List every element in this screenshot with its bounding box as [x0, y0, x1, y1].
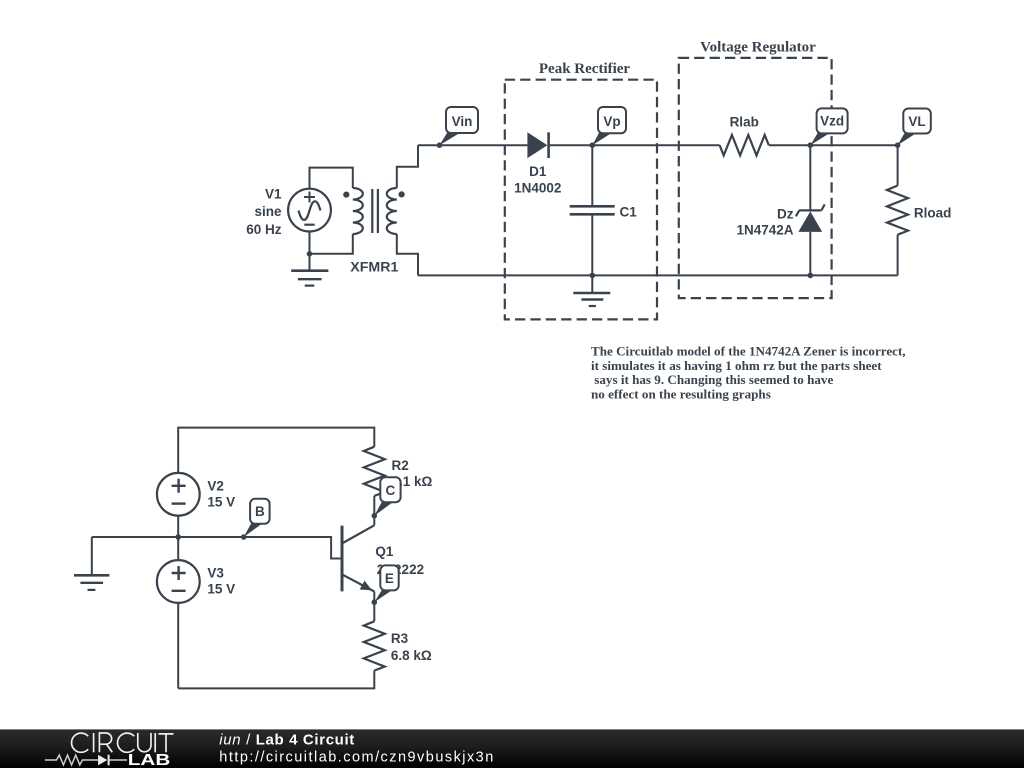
- wire V1 bottom: [309, 232, 311, 254]
- svg-text:C: C: [386, 483, 396, 498]
- svg-text:it simulates it as having 1 oh: it simulates it as having 1 ohm rz but t…: [591, 358, 882, 373]
- svg-text:LAB: LAB: [128, 752, 171, 768]
- svg-text:6.8 kΩ: 6.8 kΩ: [391, 648, 432, 663]
- wire top rail of bias circuit: [178, 428, 374, 473]
- junction node at C1 bottom: [590, 273, 596, 279]
- resistor Rload: [887, 145, 908, 275]
- transformer primary phase dot: [343, 192, 349, 198]
- svg-text:Vp: Vp: [603, 114, 620, 129]
- label V3 15 V: [207, 565, 235, 596]
- wire secondary top to Vin: [397, 145, 418, 188]
- dashed box Peak Rectifier: [505, 80, 657, 320]
- svg-text:Peak Rectifier: Peak Rectifier: [539, 61, 631, 77]
- wire R3 to bottom rail: [178, 671, 374, 689]
- node flag Vzd: [808, 108, 848, 148]
- label D1 1N4002: [514, 164, 561, 196]
- resistor R3: [364, 621, 385, 670]
- voltage source V2: [157, 473, 200, 516]
- wire primary bottom: [310, 234, 353, 254]
- svg-text:E: E: [385, 571, 394, 586]
- svg-text:15 V: 15 V: [207, 582, 235, 597]
- dashed box Voltage Regulator: [679, 58, 832, 298]
- wire V2 bottom: [177, 516, 179, 537]
- zener diode Dz: [796, 145, 825, 275]
- voltage source V3: [157, 560, 200, 603]
- svg-text:iun / Lab 4 Circuit: iun / Lab 4 Circuit: [219, 732, 354, 749]
- capacitor C1: [570, 145, 615, 275]
- svg-text:Vzd: Vzd: [820, 114, 844, 129]
- svg-text:R2: R2: [392, 458, 409, 473]
- node flag E: [374, 565, 398, 602]
- voltage source V1: [288, 189, 331, 232]
- logo CIRCUIT: [72, 733, 174, 752]
- svg-text:Vin: Vin: [452, 114, 473, 129]
- svg-text:B: B: [255, 504, 265, 519]
- svg-text:Voltage Regulator: Voltage Regulator: [700, 39, 816, 55]
- svg-text:Q1: Q1: [375, 544, 394, 559]
- svg-text:Rload: Rload: [914, 205, 952, 220]
- svg-text:Rlab: Rlab: [730, 115, 759, 130]
- svg-text:XFMR1: XFMR1: [350, 260, 398, 276]
- wire emitter to R3: [373, 592, 375, 622]
- transistor Q1: [342, 525, 374, 591]
- wire middle rail to base: [92, 537, 341, 559]
- footer bar: [0, 729, 1024, 768]
- node flag B: [241, 499, 270, 540]
- svg-text:says it has 9. Changing this s: says it has 9. Changing this seemed to h…: [591, 372, 833, 387]
- logo resistor-diode glyph: [45, 755, 127, 766]
- svg-text:C1: C1: [620, 204, 638, 219]
- svg-text:V3: V3: [207, 565, 224, 580]
- label V1 value: [246, 187, 282, 237]
- resistor Rlab: [720, 135, 769, 155]
- ground under C1: [573, 275, 610, 306]
- svg-text:60 Hz: 60 Hz: [246, 222, 282, 237]
- label Dz 1N4742A: [736, 206, 793, 237]
- junction node at emitter: [372, 599, 378, 605]
- svg-text:15 V: 15 V: [207, 495, 235, 510]
- wire R2 to collector: [373, 496, 375, 525]
- wire secondary bottom to lower bus: [397, 234, 418, 275]
- label V2 15 V: [207, 479, 235, 510]
- resistor R2: [364, 447, 385, 496]
- transformer secondary phase dot: [399, 191, 405, 197]
- wire top bus segment Vin to diode: [418, 144, 527, 146]
- wire V3 top: [177, 537, 179, 560]
- svg-text:D1: D1: [529, 164, 547, 179]
- wire top bus diode to Rlab: [549, 144, 720, 146]
- svg-text:V2: V2: [207, 479, 224, 494]
- transformer XFMR1 secondary coil: [387, 188, 397, 234]
- ground left: [74, 537, 109, 590]
- transformer core: [372, 189, 378, 233]
- node flag Vin: [437, 107, 478, 148]
- transformer XFMR1 primary coil: [353, 188, 363, 234]
- wire bottom bus: [418, 274, 898, 276]
- wire V1 top to transformer primary: [310, 168, 353, 189]
- diode D1: [527, 132, 548, 158]
- ground under V1: [291, 254, 328, 286]
- svg-text:R3: R3: [391, 631, 409, 646]
- wire top bus Rlab to VL: [769, 144, 898, 146]
- node flag C: [372, 477, 401, 518]
- note text: [591, 344, 906, 402]
- svg-text:no effect on the resulting gra: no effect on the resulting graphs: [591, 387, 771, 402]
- svg-text:VL: VL: [908, 114, 925, 129]
- svg-text:1N4742A: 1N4742A: [736, 223, 793, 238]
- junction node at Dz bottom: [808, 273, 814, 279]
- node flag Vp: [590, 107, 627, 148]
- svg-text:Dz: Dz: [777, 206, 794, 221]
- svg-text:sine: sine: [254, 204, 282, 219]
- junction node at V1 bottom: [307, 251, 313, 257]
- svg-text:V1: V1: [265, 187, 282, 202]
- wire V3 bottom: [177, 603, 179, 689]
- svg-text:The Circuitlab model of the 1N: The Circuitlab model of the 1N4742A Zene…: [591, 344, 906, 359]
- svg-text:1N4002: 1N4002: [514, 181, 561, 196]
- junction node between V2 and V3: [175, 534, 181, 540]
- node flag VL: [895, 109, 931, 149]
